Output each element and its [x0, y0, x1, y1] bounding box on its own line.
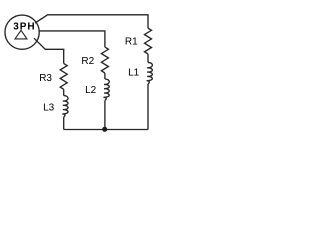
svg-text:L2: L2: [85, 85, 97, 96]
3-phase source: [5, 15, 39, 49]
svg-text:3PH: 3PH: [13, 21, 35, 32]
wire R1 to L1: [147, 54, 149, 62]
wire L2 to bottom: [104, 101, 106, 130]
wire phase B (middle): [40, 31, 105, 47]
wire R2 to L2: [104, 73, 106, 79]
wire phase A (top): [35, 15, 148, 28]
inductor L3: [62, 96, 68, 118]
resistor R2: [101, 47, 108, 73]
delta symbol: [15, 30, 27, 39]
svg-text:R2: R2: [81, 56, 94, 67]
svg-text:L3: L3: [43, 102, 55, 113]
inductor L1: [147, 62, 153, 84]
svg-text:L1: L1: [128, 68, 140, 79]
junction node: [102, 127, 107, 132]
wire L1 to bottom: [147, 84, 149, 130]
svg-text:R1: R1: [125, 37, 138, 48]
resistor R1: [145, 28, 152, 54]
wire L3 to bottom: [63, 117, 65, 129]
wire phase C (bottom-left): [34, 38, 64, 63]
svg-text:R3: R3: [39, 73, 52, 84]
bottom common wire: [64, 129, 148, 131]
wire R3 to L3: [63, 89, 65, 95]
resistor R3: [60, 63, 67, 89]
inductor L2: [104, 79, 110, 101]
